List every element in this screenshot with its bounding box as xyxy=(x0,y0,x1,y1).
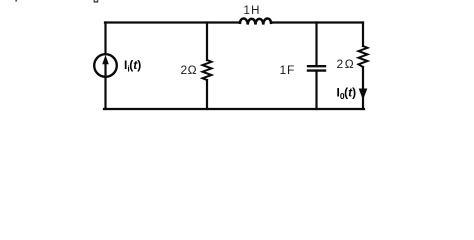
svg-text:2Ω: 2Ω xyxy=(181,63,197,77)
svg-text:Ii(t): Ii(t) xyxy=(124,58,141,74)
svg-text:1H: 1H xyxy=(244,5,260,17)
svg-text:2Ω: 2Ω xyxy=(337,57,354,71)
svg-text:1F: 1F xyxy=(280,63,295,77)
svg-text:I0(t): I0(t) xyxy=(337,86,357,102)
